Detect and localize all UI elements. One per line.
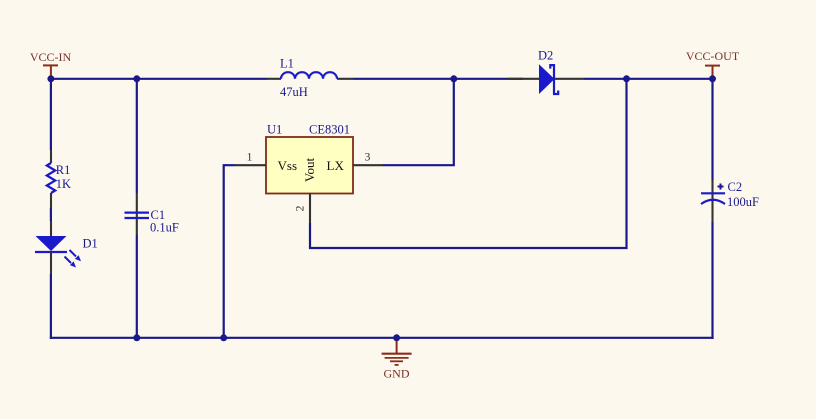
- junction VCC-OUT: [709, 75, 716, 82]
- svg-text:2: 2: [295, 205, 307, 211]
- resistor R1: [47, 150, 55, 208]
- svg-text:L1: L1: [280, 57, 294, 71]
- svg-text:Vss: Vss: [278, 158, 298, 173]
- wire bottom rail: [50, 337, 714, 339]
- svg-text:1: 1: [247, 152, 253, 164]
- capacitor C2 (electrolytic): [701, 180, 725, 222]
- wire left branch lower: [50, 274, 52, 339]
- wire C1 branch upper: [136, 79, 138, 193]
- power port VCC-IN: [30, 50, 72, 76]
- wire C1 branch lower: [136, 235, 138, 338]
- svg-text:D1: D1: [83, 237, 98, 251]
- inductor L1: [268, 72, 354, 79]
- svg-text:47uH: 47uH: [280, 85, 308, 99]
- junction C1 bottom: [133, 334, 140, 341]
- wire top rail middle: [354, 78, 524, 80]
- junction pin1 bottom: [220, 334, 227, 341]
- junction C1 top: [133, 75, 140, 82]
- wire between R1 and D1: [50, 208, 52, 221]
- wire pin2 feedback path: [310, 79, 627, 248]
- svg-text:3: 3: [365, 152, 371, 164]
- capacitor C1: [125, 193, 150, 235]
- svg-text:U1: U1: [267, 123, 282, 137]
- svg-text:VCC-IN: VCC-IN: [30, 50, 72, 64]
- LED D1: [35, 221, 81, 274]
- junction VCC-IN: [47, 75, 54, 82]
- power port VCC-OUT: [686, 49, 740, 76]
- wire pin1 to bottom rail: [224, 165, 235, 338]
- junction LX top: [450, 75, 457, 82]
- junction GND: [393, 334, 400, 341]
- svg-text:LX: LX: [327, 158, 345, 173]
- diode D2 (Schottky): [508, 64, 584, 94]
- wire left branch upper: [50, 78, 52, 150]
- pin 2 of U1: [309, 194, 311, 224]
- svg-text:0.1uF: 0.1uF: [150, 221, 179, 235]
- wire C2 branch upper: [711, 78, 713, 180]
- wire top rail right: [584, 78, 713, 80]
- svg-text:D2: D2: [538, 49, 553, 63]
- svg-text:CE8301: CE8301: [309, 123, 350, 137]
- svg-text:C2: C2: [728, 180, 743, 194]
- wire pin3 to top rail: [383, 79, 454, 165]
- svg-text:1K: 1K: [56, 177, 71, 191]
- svg-text:Vout: Vout: [302, 157, 317, 182]
- wire top rail left: [51, 78, 268, 80]
- svg-text:R1: R1: [56, 163, 71, 177]
- pin 1 of U1: [235, 164, 266, 166]
- wire C2 branch lower: [711, 222, 713, 339]
- pin 3 of U1: [353, 164, 383, 166]
- svg-text:VCC-OUT: VCC-OUT: [686, 49, 740, 63]
- ground: [382, 341, 412, 381]
- svg-text:100uF: 100uF: [727, 195, 759, 209]
- svg-text:GND: GND: [384, 367, 410, 381]
- IC U1 CE8301 body: [266, 137, 353, 194]
- junction feedback top: [623, 75, 630, 82]
